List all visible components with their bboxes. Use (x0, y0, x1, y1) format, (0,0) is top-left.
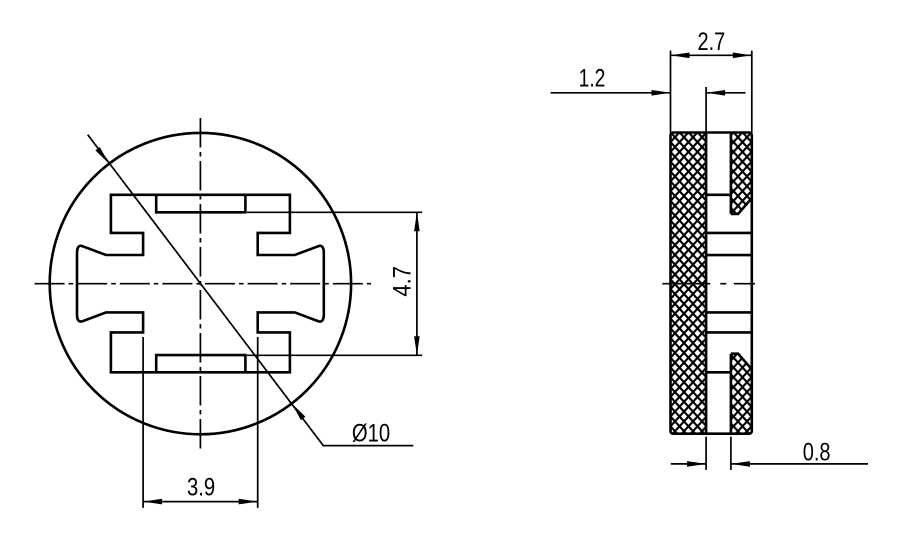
svg-text:1.2: 1.2 (579, 64, 606, 92)
hatch bottom right column (731, 354, 752, 434)
svg-text:Ø10: Ø10 (352, 418, 390, 447)
4.7 dimension line (416, 212, 418, 355)
1.2 dimension (551, 92, 746, 94)
2.7 dimension line (671, 54, 752, 56)
svg-text:0.8: 0.8 (803, 438, 831, 466)
svg-text:3.9: 3.9 (187, 472, 215, 501)
svg-text:2.7: 2.7 (698, 28, 726, 56)
arrow dia top-left (95, 147, 109, 164)
svg-text:4.7: 4.7 (388, 266, 416, 297)
inner rect bottom (156, 355, 245, 372)
bottom column top edge + bevel (731, 354, 752, 369)
internal vertical line (1.2 boundary) (705, 133, 708, 434)
3.9 arrows (143, 499, 162, 505)
diameter leader line (88, 135, 414, 446)
cutout outline (77, 195, 324, 372)
3.9 dimension line (143, 501, 258, 503)
2.7 arrows (671, 53, 690, 59)
3.9 extension lines (143, 337, 258, 508)
horizontal centerline (35, 283, 371, 285)
hatch left column (671, 133, 707, 434)
full width lines right portion (706, 233, 752, 333)
4.7 extension lines (247, 212, 422, 355)
2.7 extension lines (671, 51, 752, 133)
arrow dia bottom-right (292, 403, 306, 420)
slot right edge verticals (730, 133, 733, 434)
4.7 arrows (414, 212, 420, 231)
outer circle (50, 133, 351, 434)
side centerline (662, 283, 755, 285)
part outline (671, 133, 752, 434)
hatch top right column (731, 133, 752, 214)
slot bottom / top lines (706, 195, 731, 372)
inner rect top (156, 195, 245, 213)
vertical centerline (199, 118, 201, 450)
top column bottom edge + bevel (731, 198, 752, 214)
0.8 dimension (706, 437, 731, 470)
